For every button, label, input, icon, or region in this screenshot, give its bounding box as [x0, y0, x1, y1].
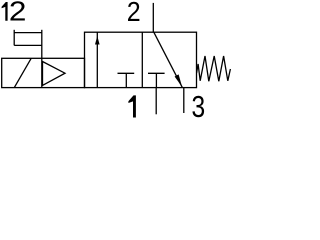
spring — [197, 56, 231, 81]
actuator divider — [41, 58, 43, 87]
T1 bar — [118, 72, 135, 74]
port 3 stub — [183, 88, 185, 113]
label 1 bottom — [128, 95, 136, 117]
pilot box mid horizontal — [14, 44, 42, 46]
svg-text:3: 3 — [192, 89, 206, 119]
T2 bar — [148, 72, 165, 74]
label 12 : digit 1 — [2, 2, 8, 21]
port 2 line — [152, 3, 154, 32]
pilot box top horizontal — [14, 32, 42, 34]
diagonal arrow head — [175, 74, 183, 87]
label 2 top — [127, 0, 141, 28]
up arrow shaft — [96, 32, 98, 87]
up arrow head — [95, 36, 100, 45]
diagonal flow line — [154, 32, 183, 87]
valve body — [85, 32, 197, 87]
port 1 stub — [155, 88, 157, 115]
solenoid diagonal — [14, 58, 31, 87]
body divider — [141, 32, 143, 87]
label 12 : digit 2 — [9, 0, 27, 27]
actuator box — [2, 58, 85, 87]
T1 stem — [125, 73, 127, 87]
pilot box right vertical (continues to actuator) — [41, 30, 43, 59]
pilot triangle — [43, 62, 66, 86]
label 3 bottom — [192, 89, 206, 123]
svg-text:2: 2 — [127, 0, 141, 28]
T2 stem — [155, 73, 157, 87]
svg-text:2: 2 — [9, 0, 27, 27]
pilot box left vertical — [13, 30, 15, 46]
